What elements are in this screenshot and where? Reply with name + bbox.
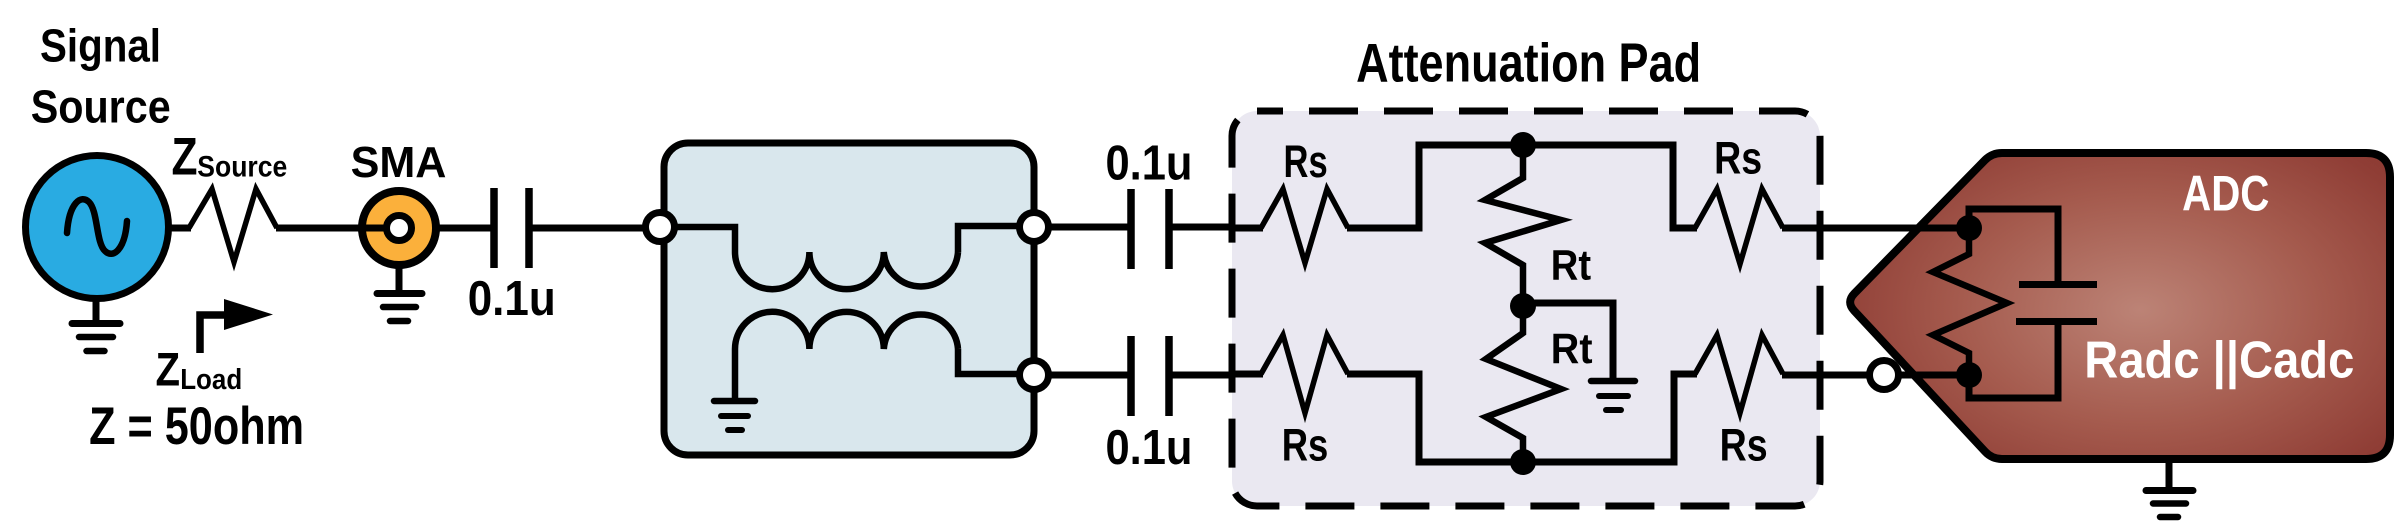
svg-text:0.1u: 0.1u bbox=[468, 272, 556, 326]
svg-text:Rt: Rt bbox=[1551, 325, 1593, 373]
svg-text:Rs: Rs bbox=[1282, 419, 1329, 470]
svg-text:Rs: Rs bbox=[1714, 132, 1762, 183]
svg-text:SMA: SMA bbox=[351, 138, 447, 187]
svg-text:Signal: Signal bbox=[40, 19, 161, 71]
svg-text:Z: Z bbox=[172, 127, 198, 186]
svg-text:Source: Source bbox=[197, 150, 287, 183]
svg-text:Rt: Rt bbox=[1551, 241, 1591, 289]
svg-text:0.1u: 0.1u bbox=[1106, 136, 1193, 190]
svg-text:Z = 50ohm: Z = 50ohm bbox=[89, 397, 304, 456]
svg-text:Source: Source bbox=[31, 81, 171, 133]
svg-text:0.1u: 0.1u bbox=[1106, 421, 1193, 475]
svg-text:Radc ||Cadc: Radc ||Cadc bbox=[2084, 331, 2354, 389]
svg-text:Attenuation Pad: Attenuation Pad bbox=[1356, 31, 1701, 93]
svg-text:Load: Load bbox=[180, 364, 242, 396]
svg-text:Rs: Rs bbox=[1284, 136, 1328, 187]
svg-text:Z: Z bbox=[156, 344, 181, 397]
svg-text:Rs: Rs bbox=[1720, 419, 1768, 470]
svg-text:ADC: ADC bbox=[2182, 166, 2269, 222]
